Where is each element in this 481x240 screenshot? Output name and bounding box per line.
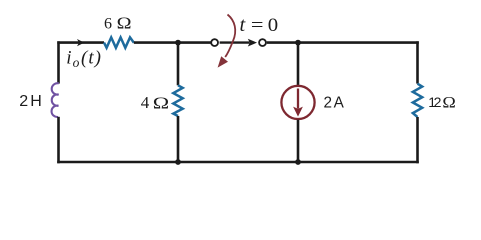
wire 4ohm branch top stub — [177, 43, 180, 86]
wire right vertical (bottom stub) — [416, 117, 419, 163]
svg-text:Ω: Ω — [442, 93, 455, 111]
current direction arrowhead on top wire — [77, 39, 84, 46]
svg-text:t=0: t=0 — [240, 14, 279, 36]
svg-text:Ω: Ω — [117, 14, 132, 33]
node D junction dot (bottom, x=298) — [295, 159, 301, 165]
svg-text:Ω: Ω — [153, 94, 169, 113]
switch right terminal circle — [259, 39, 266, 46]
wire from switch to right corner — [267, 41, 419, 44]
node B junction dot (top, x=298) — [295, 40, 301, 46]
switch blade with arrowhead — [220, 41, 250, 43]
wire right vertical (top stub) — [416, 41, 419, 83]
svg-text:2A: 2A — [324, 95, 345, 112]
wire current source branch bottom stub — [297, 120, 300, 163]
wire bottom horizontal — [57, 161, 419, 164]
wire top-left horizontal segment — [57, 41, 104, 44]
wire from 6ohm to node A — [134, 41, 211, 44]
svg-text:6: 6 — [104, 16, 112, 33]
current source 2A circle — [281, 86, 314, 119]
resistor 4ohm (vertical) — [173, 85, 182, 116]
wire left vertical (below inductor) — [57, 117, 60, 164]
node C junction dot (bottom, x=178) — [175, 159, 181, 165]
switch left terminal circle — [211, 39, 218, 46]
svg-text:io(t): io(t) — [66, 47, 102, 70]
resistor 6ohm (horizontal) — [104, 37, 134, 47]
wire current source branch top stub — [297, 43, 300, 86]
inductor 2H (three loops) — [52, 83, 59, 117]
node A junction dot (top, x=178) — [175, 40, 181, 46]
current source 2A arrow (downward) — [297, 89, 299, 109]
svg-text:12: 12 — [428, 94, 441, 110]
switch closing motion red arc arrow — [225, 15, 235, 58]
resistor 12ohm (vertical) — [413, 84, 422, 117]
wire left vertical (top stub above inductor) — [57, 41, 60, 83]
svg-text:4: 4 — [141, 93, 150, 112]
wire 4ohm branch bottom stub — [177, 116, 180, 163]
svg-text:2H: 2H — [19, 93, 42, 110]
